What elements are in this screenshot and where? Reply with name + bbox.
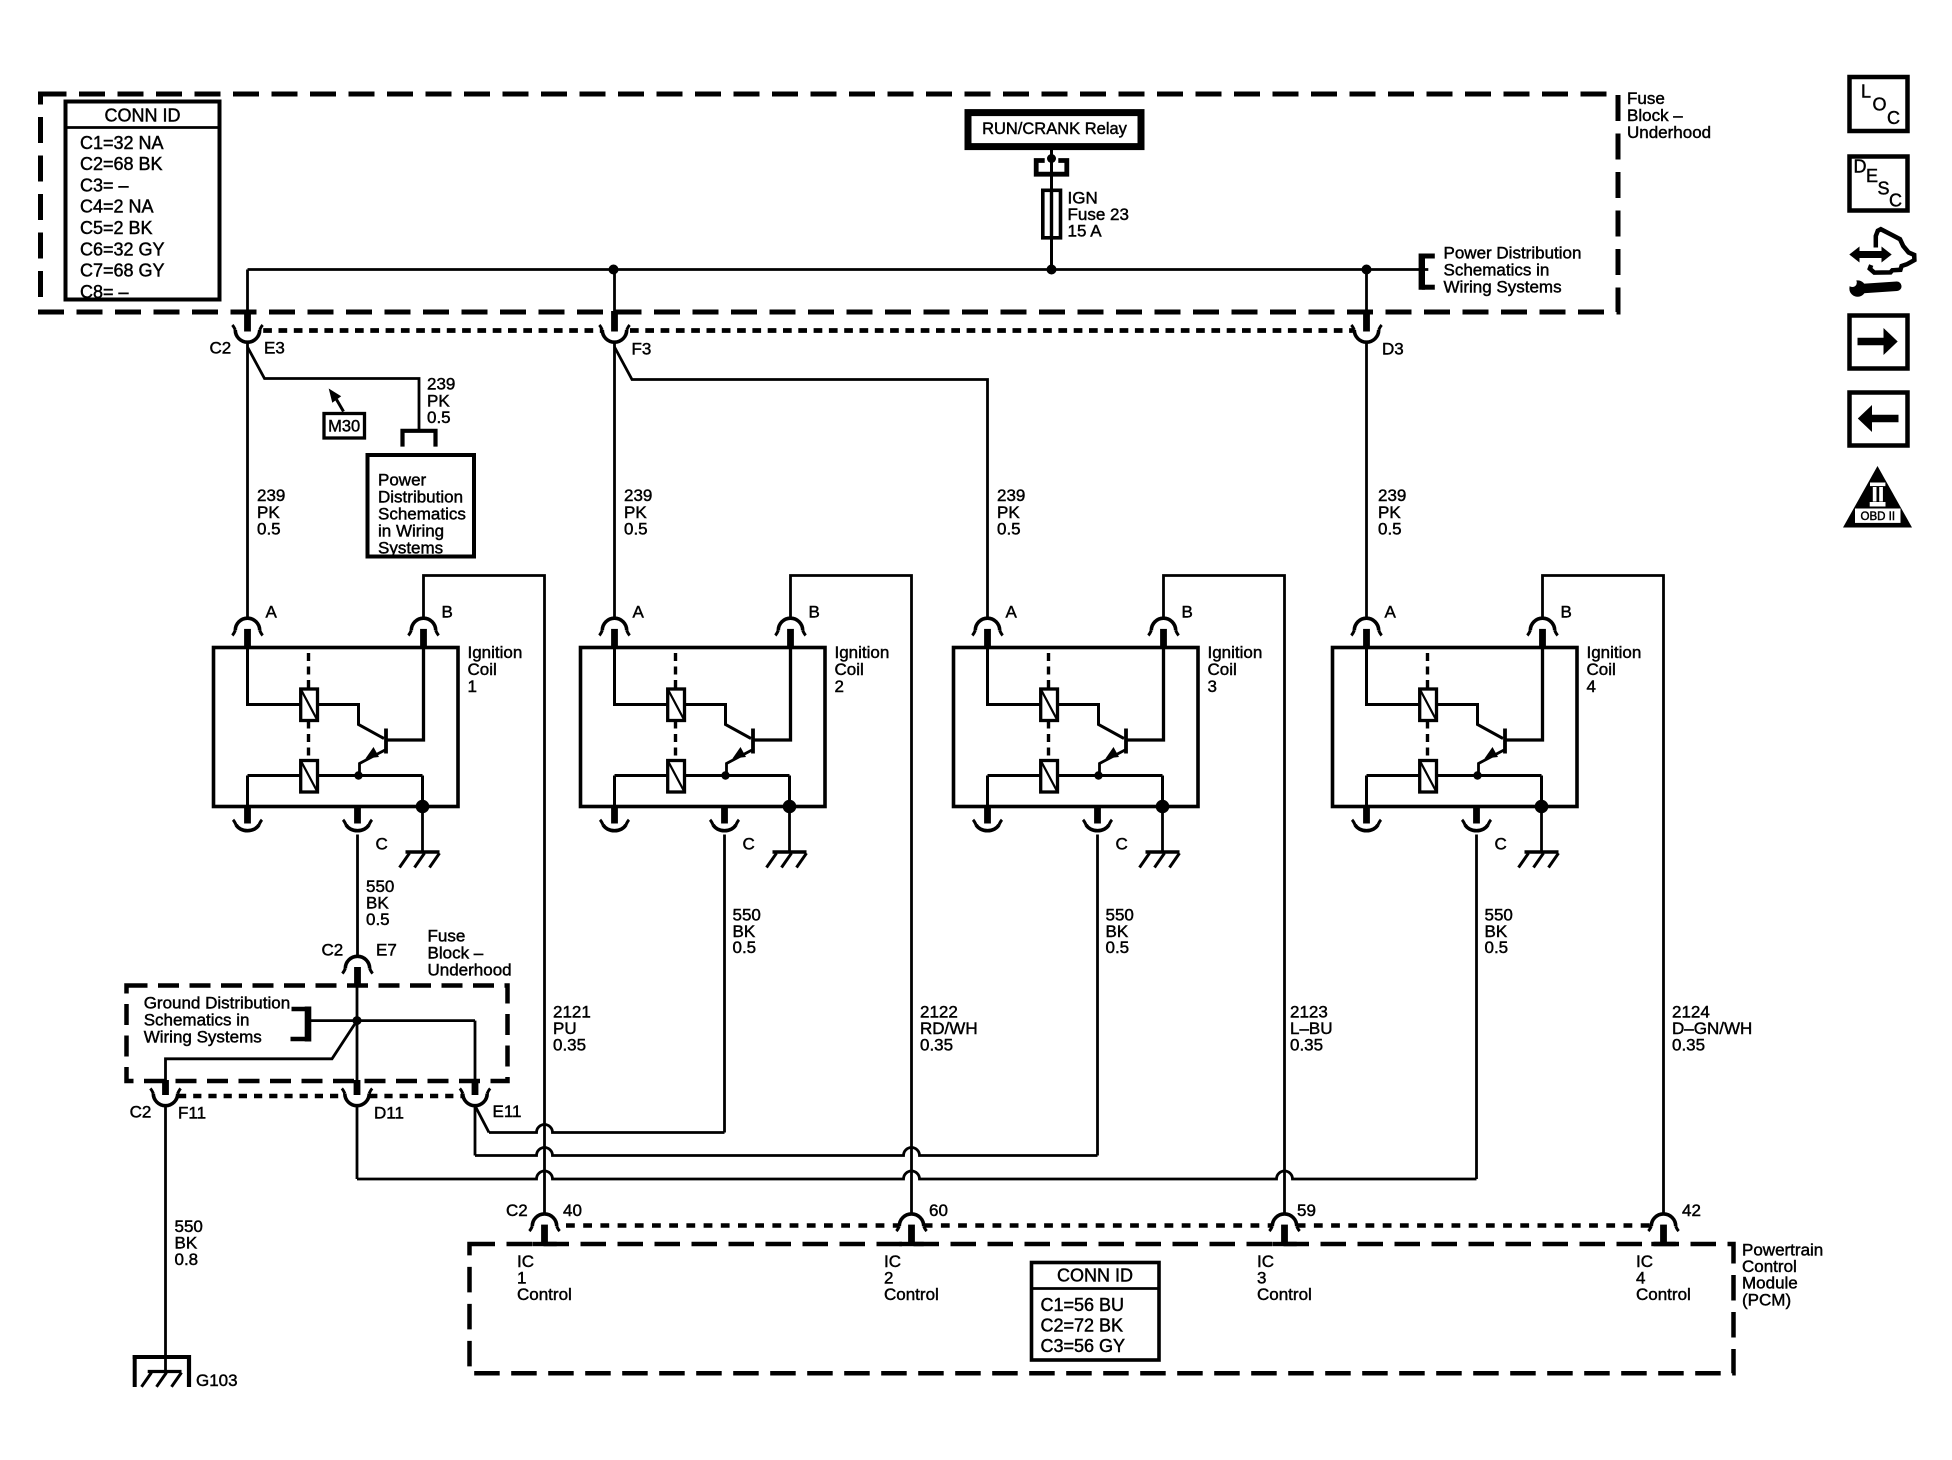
svg-text:3: 3 — [1208, 677, 1217, 696]
wire 550 BK coil 1 C to E7 — [356, 835, 359, 957]
svg-text:CONN ID: CONN ID — [1057, 1266, 1133, 1286]
ignition coil 4 pin B connector — [1539, 629, 1546, 649]
ignition coil 1 core dashed line — [307, 653, 310, 760]
svg-text:15 A: 15 A — [1068, 222, 1103, 241]
ignition coil 1 outline box — [214, 648, 459, 807]
wire F3 drop from bus — [613, 270, 616, 313]
wire ignition power bus — [248, 268, 1429, 271]
fuse block - underhood dashed outline — [41, 94, 1619, 312]
junction dot coil 1 ground — [416, 800, 430, 814]
connector C2 F11 — [162, 1080, 169, 1095]
svg-text:59: 59 — [1297, 1201, 1316, 1220]
ignition coil 4 outline box — [1333, 648, 1578, 807]
transistor emitter coil 2 — [727, 750, 753, 776]
ignition coil 2 wire A to primary — [615, 649, 668, 705]
svg-text:40: 40 — [563, 1201, 582, 1220]
svg-text:F11: F11 — [178, 1104, 206, 1123]
svg-text:M30: M30 — [328, 418, 360, 436]
svg-text:0.35: 0.35 — [1672, 1036, 1705, 1055]
svg-text:4: 4 — [1587, 677, 1596, 696]
box Power Distribution Schematics in Wiring Systems — [368, 455, 475, 557]
svg-text:A: A — [266, 603, 278, 622]
svg-text:0.5: 0.5 — [427, 408, 451, 427]
connector C2 E7 — [354, 967, 361, 985]
svg-text:A: A — [633, 603, 645, 622]
wire 239 PK from E3 to coil 1 — [246, 342, 249, 618]
ignition coil 4 wire A to primary — [1367, 649, 1420, 705]
transistor base bar coil 1 — [384, 729, 388, 754]
ignition coil 3 secondary output connector — [984, 805, 991, 824]
svg-text:0.5: 0.5 — [366, 910, 390, 929]
connector PCM pin 59 — [1281, 1225, 1288, 1242]
bracket to Power Distribution Schematics — [1419, 254, 1425, 290]
svg-text:42: 42 — [1682, 1201, 1701, 1220]
ground symbol coil 4 — [1525, 850, 1559, 854]
svg-text:0.5: 0.5 — [257, 520, 281, 539]
ignition coil 3 pin B connector — [1160, 629, 1167, 649]
ignition coil 4 pin C connector — [1473, 805, 1480, 824]
svg-text:B: B — [809, 603, 820, 622]
wire 239 PK from F3 to coil 2 — [613, 342, 616, 618]
wire coil 1 B loop to PCM column — [424, 576, 545, 1214]
svg-text:C4=2 NA: C4=2 NA — [80, 197, 154, 217]
connector D3 — [1363, 311, 1370, 332]
connector F3 — [611, 311, 618, 332]
junction dot below relay — [1047, 154, 1056, 163]
svg-text:C: C — [743, 835, 755, 854]
wire branch E3 to power distribution stub — [248, 347, 420, 430]
wire coil 4 C to D11 — [1475, 835, 1478, 1180]
ignition coil 3 outline box — [954, 648, 1199, 807]
svg-text:C2: C2 — [130, 1103, 152, 1122]
ignition coil 4 primary winding — [1420, 689, 1437, 721]
wire ground bus to E11 — [474, 1021, 477, 1081]
svg-text:F3: F3 — [632, 340, 652, 359]
svg-text:OBD II: OBD II — [1861, 511, 1896, 523]
connector PCM pin 60 — [908, 1225, 915, 1242]
dotted fuse block connector row — [263, 328, 601, 333]
ignition coil 4 wire primary to transistor — [1437, 705, 1504, 739]
ignition coil 1 wire primary to transistor — [318, 705, 385, 739]
svg-text:C2=72 BK: C2=72 BK — [1041, 1316, 1124, 1336]
icon OBD II — [1843, 466, 1912, 528]
connector C2 E3 — [244, 311, 251, 332]
svg-text:0.35: 0.35 — [920, 1036, 953, 1055]
svg-text:E7: E7 — [376, 941, 397, 960]
svg-text:Control: Control — [1636, 1285, 1691, 1304]
svg-text:C: C — [1889, 191, 1902, 211]
dotted connector row F11 D11 E11 — [178, 1094, 345, 1099]
svg-text:B: B — [1561, 603, 1572, 622]
svg-text:E3: E3 — [264, 339, 285, 358]
svg-text:Control: Control — [1257, 1285, 1312, 1304]
svg-text:C: C — [1116, 835, 1128, 854]
junction dot coil 4 ground — [1535, 800, 1549, 814]
wire relay to fuse — [1050, 150, 1053, 191]
svg-text:O: O — [1873, 95, 1887, 115]
svg-text:E11: E11 — [493, 1102, 522, 1121]
relay RUN/CRANK Relay — [968, 113, 1141, 147]
ignition coil 1 wire B to transistor — [387, 649, 424, 740]
connector PCM pin 40 — [541, 1225, 548, 1242]
ignition coil 4 secondary circuit wire — [1367, 774, 1420, 777]
wire ground bus to F11 — [166, 1021, 358, 1081]
svg-text:L: L — [1861, 82, 1871, 102]
wire branch F3 to coil 3 — [615, 347, 988, 618]
svg-text:(PCM): (PCM) — [1742, 1290, 1791, 1309]
svg-text:Underhood: Underhood — [1627, 123, 1711, 142]
icon LOC — [1850, 77, 1908, 131]
wire ground bus inside fuse block — [308, 1019, 475, 1022]
svg-text:0.5: 0.5 — [1378, 520, 1402, 539]
svg-text:0.5: 0.5 — [1106, 938, 1130, 957]
svg-text:C7=68 GY: C7=68 GY — [80, 261, 165, 281]
ignition coil 2 primary winding — [668, 689, 685, 721]
fuse IGN Fuse 23 15 A — [1050, 190, 1053, 270]
svg-text:D: D — [1854, 157, 1867, 177]
callout box M30 — [324, 414, 365, 439]
transistor base bar coil 3 — [1124, 729, 1128, 754]
svg-text:Systems: Systems — [378, 539, 443, 558]
junction dot emitter coil 4 — [1473, 771, 1481, 779]
svg-text:E: E — [1866, 166, 1878, 186]
svg-text:Wiring Systems: Wiring Systems — [1444, 278, 1562, 297]
wire coil 2 B loop to PCM column — [791, 576, 912, 1214]
svg-text:0.5: 0.5 — [997, 520, 1021, 539]
icon arrow right — [1850, 316, 1908, 369]
fuse holder clips — [1036, 161, 1067, 175]
wire E7 to ground bus and D11 — [356, 984, 359, 1081]
svg-text:0.5: 0.5 — [1485, 938, 1509, 957]
svg-text:C: C — [376, 835, 388, 854]
ground symbol coil 1 — [406, 850, 440, 854]
svg-text:60: 60 — [929, 1201, 948, 1220]
ignition coil 3 core dashed line — [1047, 653, 1050, 760]
ground wire coil 3 — [1161, 807, 1164, 852]
transistor base bar coil 2 — [751, 729, 755, 754]
svg-text:C2: C2 — [210, 339, 232, 358]
svg-text:C2: C2 — [322, 941, 344, 960]
icon vehicle with arrow and wrench — [1859, 251, 1884, 258]
svg-text:C1=32 NA: C1=32 NA — [80, 133, 164, 153]
ignition coil 2 pin C connector — [721, 805, 728, 824]
ignition coil 1 pin C connector — [354, 805, 361, 824]
wire coil 4 B loop to PCM column — [1543, 576, 1664, 1214]
svg-text:C3= –: C3= – — [80, 175, 129, 195]
svg-text:Underhood: Underhood — [428, 961, 512, 980]
connector D11 — [354, 1080, 361, 1095]
svg-text:Control: Control — [517, 1285, 572, 1304]
ignition coil 2 pin B connector — [787, 629, 794, 649]
wire E3 drop from bus — [246, 270, 249, 313]
ignition coil 3 wire B to transistor — [1127, 649, 1164, 740]
svg-text:B: B — [1182, 603, 1193, 622]
junction dot emitter coil 2 — [721, 771, 729, 779]
connector E11 — [472, 1080, 479, 1095]
svg-text:C8= –: C8= – — [80, 282, 129, 302]
svg-text:C: C — [1495, 835, 1507, 854]
transistor emitter coil 3 — [1100, 750, 1126, 776]
ignition coil 4 pin A connector — [1363, 629, 1370, 649]
ignition coil 1 wire A to primary — [248, 649, 301, 705]
harness connector staple above PDS box — [403, 431, 436, 447]
ignition coil 1 secondary winding — [301, 761, 318, 793]
svg-text:C6=32 GY: C6=32 GY — [80, 239, 165, 259]
junction dot bus at D3 — [1362, 265, 1372, 275]
svg-text:C3=56 GY: C3=56 GY — [1041, 1336, 1126, 1356]
ground wire coil 1 — [421, 807, 424, 852]
ignition coil 2 secondary output connector — [611, 805, 618, 824]
ignition coil 3 pin C connector — [1094, 805, 1101, 824]
connector PCM pin 42 — [1660, 1225, 1667, 1242]
ground symbol coil 3 — [1146, 850, 1180, 854]
ignition coil 4 wire B to transistor — [1506, 649, 1543, 740]
ground distribution dashed box — [127, 986, 508, 1082]
ignition coil 1 secondary output connector — [244, 805, 251, 824]
junction dot bus at F3 — [609, 265, 619, 275]
ignition coil 3 secondary winding — [1041, 761, 1058, 793]
svg-text:Wiring Systems: Wiring Systems — [144, 1028, 262, 1047]
svg-text:A: A — [1006, 603, 1018, 622]
ignition coil 2 core dashed line — [674, 653, 677, 760]
ignition coil 3 wire primary to transistor — [1058, 705, 1125, 739]
junction dot bus at fuse — [1047, 265, 1057, 275]
ignition coil 2 wire primary to transistor — [685, 705, 752, 739]
svg-text:C: C — [1887, 108, 1900, 128]
wire coil 2 C to E11 — [723, 835, 726, 1133]
svg-text:0.35: 0.35 — [1290, 1036, 1323, 1055]
ignition coil 1 pin B connector — [420, 629, 427, 649]
junction dot coil 3 ground — [1156, 800, 1170, 814]
svg-text:CONN ID: CONN ID — [105, 106, 181, 126]
wire coil 3 C to E11 — [1096, 835, 1099, 1156]
ignition coil 4 secondary output connector — [1363, 805, 1370, 824]
junction dot coil 2 ground — [783, 800, 797, 814]
svg-text:0.5: 0.5 — [733, 938, 757, 957]
wire coil 3 B loop to PCM column — [1164, 576, 1285, 1214]
svg-text:C5=2 BK: C5=2 BK — [80, 218, 153, 238]
CONN ID table (PCM) — [1032, 1263, 1160, 1361]
svg-text:S: S — [1878, 178, 1890, 198]
icon arrow left — [1850, 393, 1908, 446]
ground wire coil 4 — [1540, 807, 1543, 852]
ignition coil 4 core dashed line — [1426, 653, 1429, 760]
svg-text:G103: G103 — [196, 1371, 238, 1390]
svg-text:D3: D3 — [1382, 340, 1404, 359]
ignition coil 2 outline box — [581, 648, 826, 807]
transistor emitter coil 4 — [1479, 750, 1505, 776]
ignition coil 1 secondary circuit wire — [248, 774, 301, 777]
ignition coil 4 secondary winding — [1420, 761, 1437, 793]
ignition coil 3 pin A connector — [984, 629, 991, 649]
ground G103 — [133, 1355, 191, 1359]
svg-text:0.35: 0.35 — [553, 1036, 586, 1055]
ignition coil 1 primary winding — [301, 689, 318, 721]
ignition coil 2 secondary circuit wire — [615, 774, 668, 777]
svg-text:0.5: 0.5 — [624, 520, 648, 539]
arrow to M30 — [329, 389, 342, 403]
ignition coil 3 primary winding — [1041, 689, 1058, 721]
junction dot emitter coil 3 — [1094, 771, 1102, 779]
svg-text:2: 2 — [835, 677, 844, 696]
svg-text:C2: C2 — [506, 1201, 528, 1220]
svg-text:D11: D11 — [374, 1104, 404, 1123]
svg-text:B: B — [442, 603, 453, 622]
ignition coil 1 pin A connector — [244, 629, 251, 649]
ignition coil 2 secondary winding — [668, 761, 685, 793]
junction dot ground bus — [353, 1016, 362, 1025]
wire 550 BK F11 to G103 — [164, 1106, 167, 1371]
svg-text:A: A — [1385, 603, 1397, 622]
ignition coil 2 wire B to transistor — [754, 649, 791, 740]
transistor emitter coil 1 — [360, 750, 386, 776]
bracket ground distribution — [305, 1007, 312, 1042]
CONN ID table (fuse block) — [66, 102, 220, 300]
junction dot emitter coil 1 — [354, 771, 362, 779]
icon DESC — [1850, 157, 1908, 211]
svg-text:0.8: 0.8 — [175, 1250, 199, 1269]
wire D3 drop from bus — [1365, 270, 1368, 313]
ignition coil 3 wire A to primary — [988, 649, 1041, 705]
powertrain control module dashed box — [470, 1244, 1734, 1373]
dotted connector row PCM C2 — [566, 1223, 899, 1228]
transistor base bar coil 4 — [1503, 729, 1507, 754]
svg-text:1: 1 — [468, 677, 477, 696]
wire 239 PK from D3 to coil 4 — [1365, 342, 1368, 618]
svg-text:C1=56 BU: C1=56 BU — [1041, 1295, 1125, 1315]
ground wire coil 2 — [788, 807, 791, 852]
svg-text:C2=68 BK: C2=68 BK — [80, 154, 163, 174]
svg-text:RUN/CRANK Relay: RUN/CRANK Relay — [982, 120, 1128, 138]
ignition coil 3 secondary circuit wire — [988, 774, 1041, 777]
ground symbol coil 2 — [773, 850, 807, 854]
ignition coil 2 pin A connector — [611, 629, 618, 649]
svg-text:Control: Control — [884, 1285, 939, 1304]
